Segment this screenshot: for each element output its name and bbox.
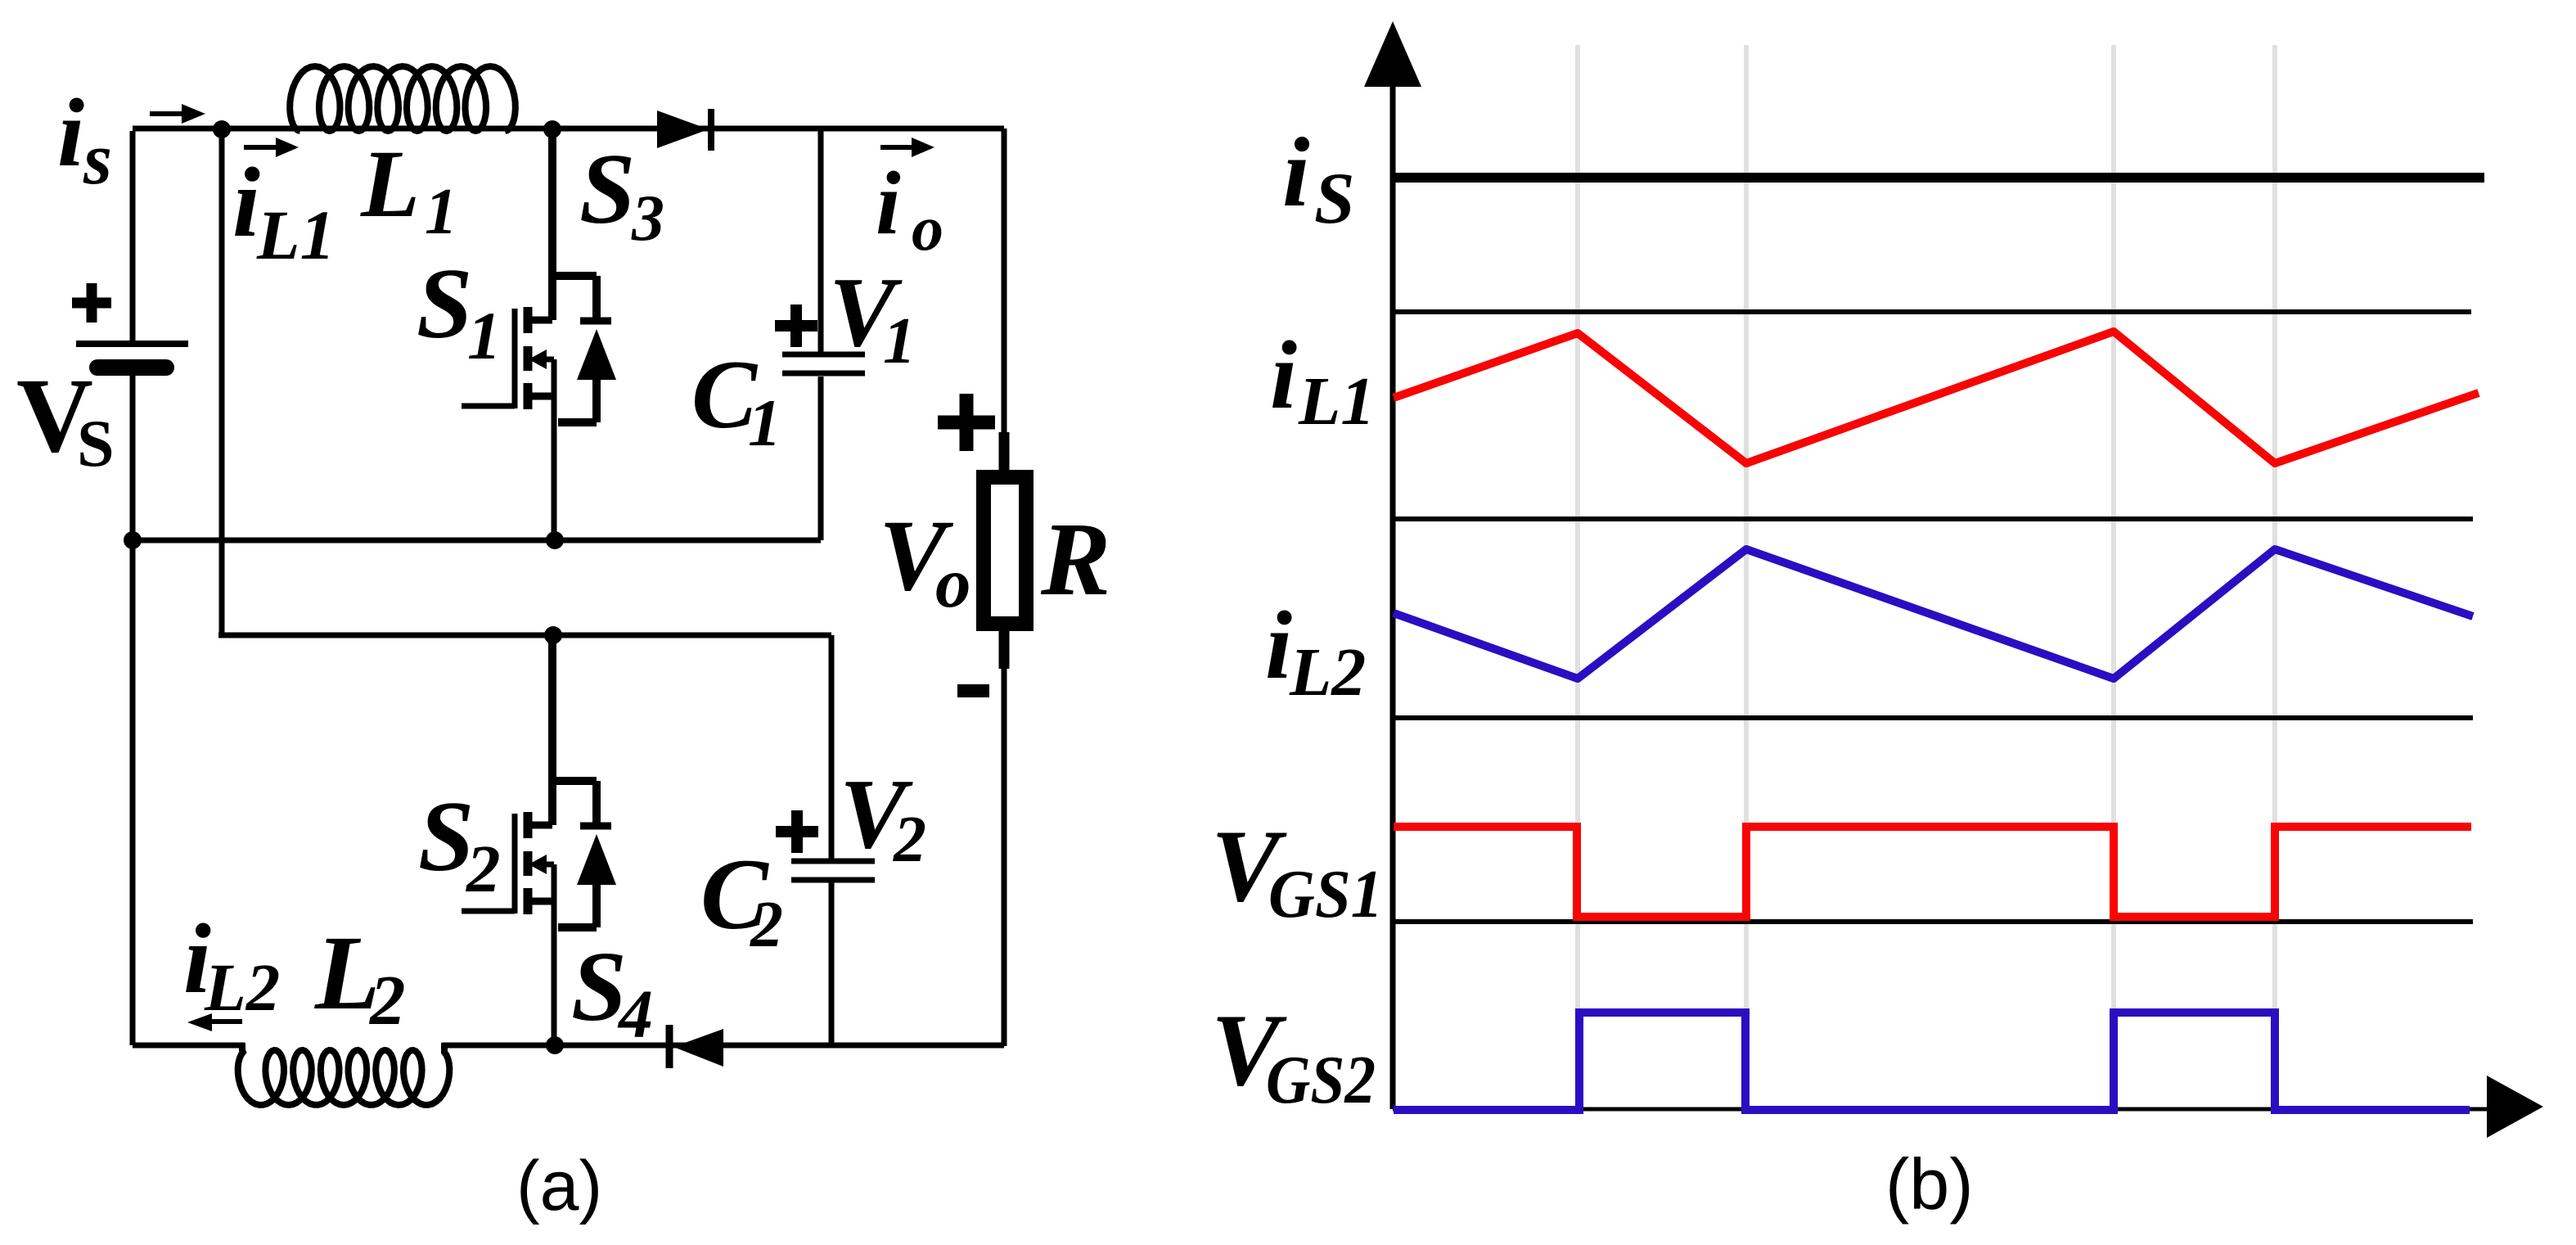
svg-text:4: 4 (617, 977, 653, 1053)
gridline t3 (2111, 45, 2116, 1015)
iL1 waveform (1394, 332, 2479, 463)
svg-text:R: R (1040, 501, 1110, 617)
junction node battery negative / mid bus (124, 531, 142, 549)
arrow iL2 (212, 1019, 242, 1024)
transistor S2 (462, 635, 611, 1045)
plus V1 (775, 304, 817, 347)
plus V2 (776, 810, 818, 853)
capacitor C1 leads (818, 129, 824, 540)
section line 3 (1393, 715, 2473, 720)
svg-text:1: 1 (883, 305, 916, 377)
svg-text:S: S (1314, 159, 1355, 239)
axis horizontal (1393, 1107, 2488, 1112)
svg-text:i: i (232, 147, 260, 258)
svg-text:s: s (83, 119, 112, 200)
wire left rail (130, 131, 136, 1045)
junction node S2 drain / C2 top (544, 626, 562, 644)
diode S3 (657, 111, 709, 148)
svg-text:S: S (417, 247, 472, 359)
diode S4 (673, 1029, 723, 1067)
wire right rail (1002, 129, 1007, 1046)
iL2 waveform (1394, 549, 2473, 679)
axis vertical (1390, 82, 1396, 1109)
capacitor C2 plates (791, 861, 875, 880)
svg-text:1: 1 (467, 298, 502, 373)
gridline t2 (1744, 45, 1749, 1015)
capacitor C1 plates (782, 354, 865, 373)
section line 2 (1393, 516, 2473, 521)
svg-text:GS1: GS1 (1268, 856, 1383, 932)
section line 1 (1393, 309, 2471, 314)
svg-text:1: 1 (425, 176, 457, 248)
svg-text:L2: L2 (1289, 634, 1366, 710)
svg-text:i: i (876, 153, 901, 253)
svg-text:i: i (1282, 118, 1310, 228)
svg-text:2: 2 (750, 889, 783, 961)
transistor S1 (462, 129, 611, 540)
svg-text:L2: L2 (204, 950, 280, 1025)
wire second bus (218, 129, 831, 635)
plus Vo (938, 394, 995, 451)
svg-text:o: o (912, 192, 943, 264)
VGS1 waveform (1394, 827, 2471, 917)
VGS2 waveform (1394, 1013, 2470, 1110)
svg-text:(a): (a) (516, 1147, 602, 1225)
resistor R (984, 477, 1026, 624)
battery VS plates (76, 341, 188, 347)
wire top bus (133, 126, 1004, 132)
junction node L1-S1 drain-S3 anode (543, 120, 561, 138)
svg-text:S: S (77, 406, 115, 480)
svg-text:L1: L1 (256, 196, 336, 274)
gridline t1 (1575, 45, 1580, 1015)
wire mid bus (133, 538, 821, 544)
svg-text:1: 1 (748, 386, 781, 460)
inductor L2 (238, 1043, 450, 1105)
minus Vo (957, 684, 989, 697)
capacitor C2 leads (829, 635, 835, 1046)
section line 4 (1393, 919, 2473, 924)
junction node is/L1 input (213, 120, 231, 138)
svg-text:2: 2 (368, 960, 406, 1040)
junction node S1 source / C1 bottom (546, 531, 564, 549)
arrow is (150, 111, 182, 116)
battery plus (72, 283, 111, 323)
gridline t4 (2272, 45, 2277, 1015)
svg-text:i: i (1270, 321, 1297, 429)
svg-text:2: 2 (893, 804, 926, 876)
svg-text:GS2: GS2 (1266, 1042, 1376, 1118)
junction node S2 source / L2 / S4 anode (546, 1036, 564, 1054)
svg-text:i: i (1265, 591, 1292, 699)
arrow io (880, 145, 912, 150)
svg-text:o: o (935, 543, 971, 622)
svg-text:3: 3 (631, 183, 664, 255)
wire bottom bus (133, 1043, 1004, 1049)
svg-text:L1: L1 (1298, 363, 1375, 440)
svg-text:(b): (b) (1885, 1144, 1974, 1225)
inductor L1 (290, 66, 516, 131)
svg-text:S: S (579, 133, 635, 245)
svg-text:i: i (57, 79, 84, 187)
svg-text:2: 2 (465, 831, 501, 906)
arrow iL1 (244, 145, 276, 150)
svg-text:L: L (360, 130, 420, 237)
is waveform (1393, 173, 2484, 183)
